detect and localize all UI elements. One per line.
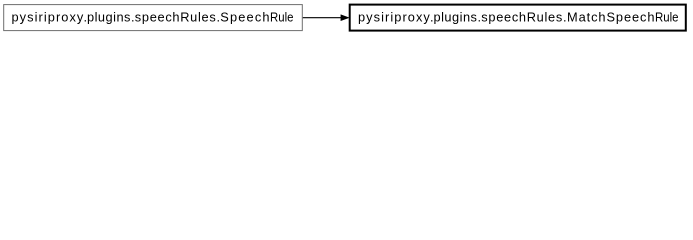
class box pysiriproxy.plugins.speechRules.SpeechRule: [4, 5, 303, 31]
svg-text:pysiriproxy.plugins.speechRule: pysiriproxy.plugins.speechRules.SpeechRu…: [12, 9, 294, 24]
background: [0, 0, 693, 37]
class box pysiriproxy.plugins.speechRules.MatchSpeechRule (highlighted): [350, 5, 686, 31]
inheritance arrow head: [341, 15, 349, 21]
inheritance arrow shaft: [303, 17, 341, 19]
svg-text:pysiriproxy.plugins.speechRule: pysiriproxy.plugins.speechRules.MatchSpe…: [358, 9, 679, 24]
